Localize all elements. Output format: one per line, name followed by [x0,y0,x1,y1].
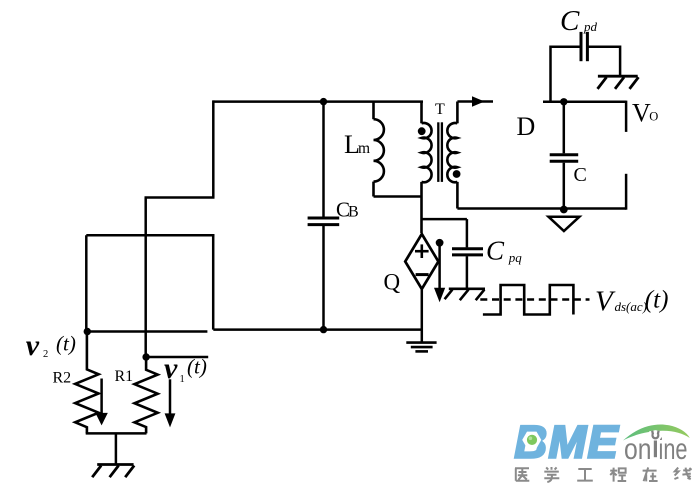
wire bottom rail [213,328,421,331]
wire output bottom rail [457,207,626,210]
resistor R1 [135,357,158,433]
svg-text:(t): (t) [56,332,76,356]
wire left vertical [212,100,215,197]
wire Q to ground [421,290,424,342]
svg-text:(t): (t) [187,355,207,379]
ground triangle output [549,217,580,231]
svg-text:V: V [632,99,651,128]
svg-text:2: 2 [43,349,48,360]
ground earth bottom-left [92,465,134,478]
waveform square wave [483,285,574,315]
svg-text:R1: R1 [115,368,134,385]
node D junction dot [560,98,567,105]
source Q diamond [405,234,438,289]
svg-text:ine: ine [659,433,688,466]
svg-text:B: B [348,204,359,221]
svg-text:R2: R2 [53,370,72,387]
svg-text:O: O [649,109,658,123]
node bottom rail / CB junction dot [320,326,327,333]
capacitor Cpq [452,219,483,289]
wire Cpq branch [422,218,467,221]
svg-text:ds(ac): ds(ac) [615,299,648,314]
dashed reference line [480,298,589,301]
wire top rail [213,100,423,103]
logo green swoosh [623,424,690,440]
capacitor Cpd [551,32,621,102]
node top rail / CB junction dot [320,98,327,105]
node v1 junction dot [142,353,149,360]
logo BME [515,416,692,482]
source Q minus [416,273,429,276]
port Vo bottom [625,174,628,210]
svg-text:V: V [595,285,616,317]
wire ground stub [115,433,118,464]
logo wrench [652,431,658,458]
arrow secondary output [457,96,493,106]
svg-text:pd: pd [583,19,598,34]
wire v1 vertical [144,198,147,358]
transformer T primary winding [422,102,432,233]
resistor R2 [75,332,98,434]
wire diode node [543,101,626,104]
svg-text:1: 1 [180,374,185,385]
wire mid lower vertical [212,234,215,330]
wire v2 step [86,234,214,237]
node v2 junction dot [84,328,91,335]
arrow Vds [434,239,445,302]
wire v1 tap [146,356,208,359]
transformer primary polarity dot [418,127,426,135]
capacitor CB [308,102,340,330]
transformer T secondary winding [447,102,457,209]
ground Q [406,343,436,352]
arrow R1 current [165,379,176,427]
arrow R2 current [95,379,107,426]
svg-text:v: v [26,329,40,362]
ground earth Cpd [598,76,639,89]
port Vo top [625,101,628,132]
logo chinese text [515,467,692,482]
svg-text:on: on [624,433,652,466]
svg-text:pq: pq [508,250,523,265]
transformer secondary polarity dot [453,170,461,178]
svg-text:C: C [486,236,505,266]
wire mid step [145,196,215,199]
capacitor C output [550,102,579,209]
logo nut hexagon [522,432,541,449]
ground hatch Cpq [445,289,485,300]
source Q plus [415,244,429,258]
wire resistor bottoms [86,432,147,435]
node output rail junction dot [560,206,568,214]
svg-text:v: v [164,352,178,385]
svg-text:D: D [517,112,536,141]
wire Lm bottom [374,195,422,198]
inductor Lm [374,102,384,197]
svg-text:C: C [560,5,580,37]
transformer T core [438,122,442,182]
wire v2 vertical [85,235,88,331]
svg-text:T: T [435,101,445,118]
svg-text:m: m [358,140,370,157]
svg-text:Q: Q [384,270,401,295]
svg-text:C: C [574,164,587,186]
wire v2 rail [87,330,208,333]
svg-text:(t): (t) [645,287,669,314]
